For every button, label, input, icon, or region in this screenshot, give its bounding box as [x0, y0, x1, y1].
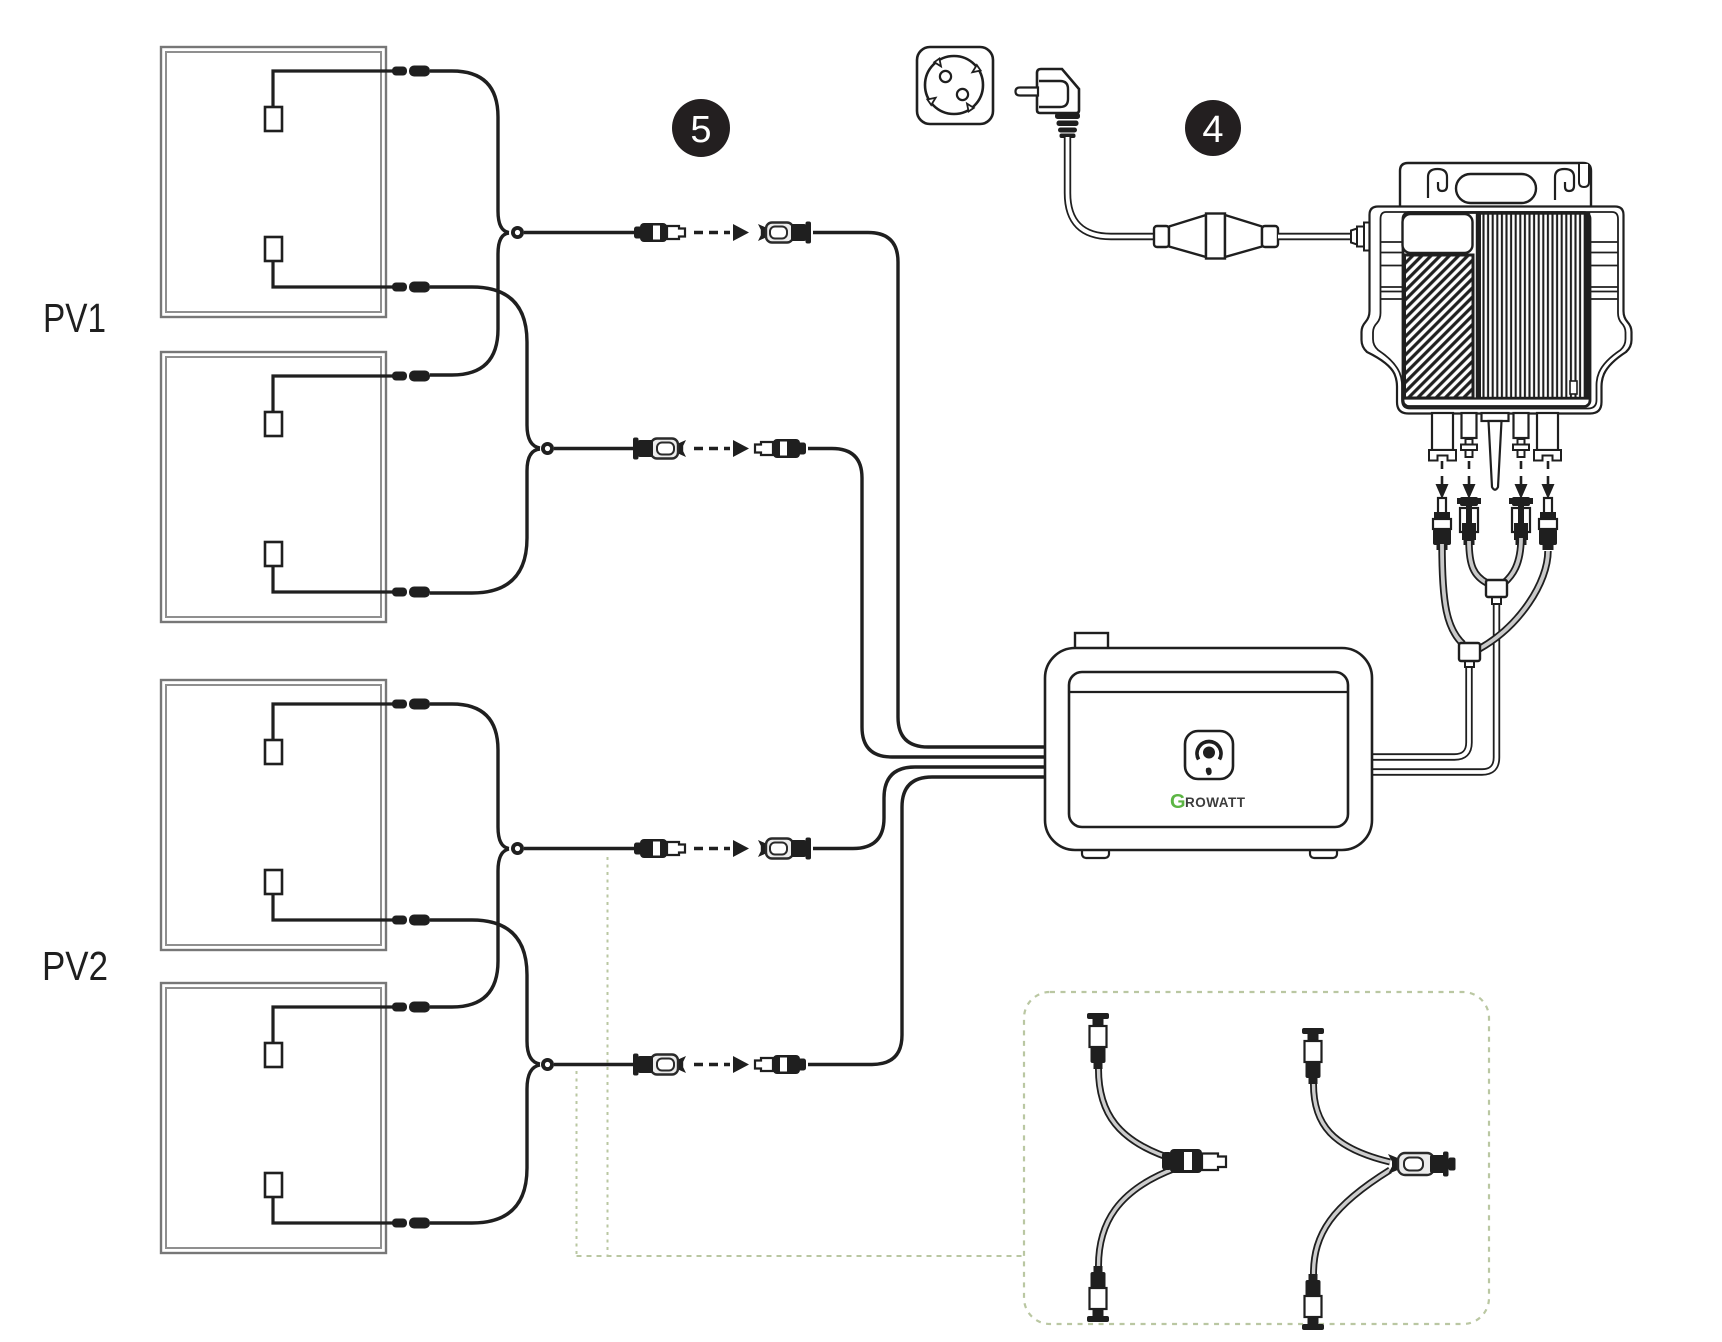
- side rib lines left: [1381, 242, 1618, 299]
- bracket hook slot 2: [1555, 169, 1574, 200]
- monitor logo icon: [1185, 731, 1233, 779]
- MC4 male plug row 2: [755, 439, 806, 458]
- DC stub 4: [1537, 413, 1558, 450]
- DC stub 3: [1514, 413, 1529, 438]
- solar panel PV2-B: [161, 983, 430, 1253]
- svg-text:PV2: PV2: [42, 943, 108, 989]
- mate arrow row 2: [694, 440, 749, 457]
- svg-text:5: 5: [690, 109, 711, 151]
- DC connector plug 2: [1457, 497, 1481, 545]
- drop arrow 2: [1468, 461, 1471, 485]
- trunk cable J1 to box: [1373, 604, 1497, 772]
- MC4 female socket row 4: [633, 1054, 686, 1076]
- svg-text:PV1: PV1: [43, 295, 106, 341]
- Y-cable B top connector: [1302, 1028, 1324, 1084]
- wire PV2-B plus to node N3: [430, 849, 509, 1007]
- DC stub 2: [1462, 413, 1477, 438]
- solar panel PV1-A: [161, 47, 430, 317]
- AC whip: [1482, 413, 1509, 421]
- trunk cable J2 to box: [1373, 667, 1469, 757]
- monitor box inner panel: [1069, 672, 1348, 827]
- wire node N4 to connector row 4: [554, 1063, 634, 1066]
- inner module frame: [1403, 213, 1590, 407]
- wire row2 to box input 2: [808, 449, 1069, 758]
- Y-cable A top connector: [1087, 1013, 1109, 1069]
- cable plug4 to junction J2: [1479, 551, 1548, 649]
- guide line horizontal: [577, 1255, 1025, 1257]
- DC connector plug 3: [1509, 497, 1533, 545]
- AC cord plug to inline connector: [1068, 137, 1156, 237]
- svg-text:G: G: [1170, 791, 1186, 813]
- svg-text:ROWATT: ROWATT: [1185, 795, 1246, 810]
- cable plug3 to junction J1: [1504, 538, 1521, 583]
- inverter AC input stub: [1351, 229, 1357, 245]
- inner case lip: [1373, 212, 1626, 409]
- wire PV1-B minus to node N2: [430, 449, 540, 593]
- cooling fins: [1477, 214, 1589, 399]
- node N4: [541, 1058, 554, 1071]
- bracket slot: [1456, 174, 1536, 203]
- wire PV1-B plus to node N1: [430, 233, 509, 375]
- wire node N3 to connector row 3: [524, 847, 634, 850]
- wire PV1-A minus to node N2: [430, 287, 540, 448]
- micro-inverter U1: [1362, 163, 1632, 490]
- MC4 male plug row 3: [634, 839, 685, 858]
- monitor box top tab: [1075, 633, 1108, 649]
- DC connector plug 4: [1539, 498, 1557, 550]
- Y-cable A bottom connector: [1087, 1266, 1109, 1322]
- MC4 female socket row 3: [758, 838, 811, 860]
- serial mark: [1570, 381, 1577, 394]
- wire PV2-A plus to node N3: [430, 704, 509, 849]
- cable plug2 to junction J1: [1469, 541, 1487, 583]
- drop arrow 3: [1520, 461, 1523, 485]
- wire node N1 to connector row 1: [524, 231, 634, 234]
- wire row3 to box input 3: [813, 767, 1069, 849]
- label plate: [1403, 214, 1473, 253]
- monitor box body: [1045, 648, 1372, 850]
- MC4 male plug row 1: [634, 223, 685, 242]
- AC wall socket icon: [917, 47, 993, 124]
- badge 4: [1185, 100, 1241, 156]
- solar panel PV2-A: [161, 680, 430, 950]
- AC plug: [1016, 69, 1081, 138]
- node N2: [541, 442, 554, 455]
- guide line from row3: [607, 857, 609, 1256]
- mate arrow row 3: [694, 840, 749, 857]
- guide line from row4: [576, 1071, 578, 1256]
- inline AC connector barrel: [1154, 214, 1278, 259]
- wire row4 to box input 4: [808, 777, 1069, 1065]
- Y-cable A lower cord: [1099, 1168, 1177, 1266]
- hatched section: [1405, 255, 1474, 398]
- wire node N2 to connector row 2: [554, 447, 634, 450]
- MC4 male plug row 4: [755, 1055, 806, 1074]
- drop arrow 4: [1547, 461, 1550, 485]
- monitor box foot left: [1082, 840, 1109, 858]
- wire PV2-B minus to node N4: [430, 1065, 540, 1223]
- badge 5: [672, 99, 730, 157]
- MC4 female socket row 2: [633, 438, 686, 460]
- mounting bracket: [1400, 163, 1591, 208]
- svg-text:4: 4: [1202, 109, 1223, 151]
- wire PV2-A minus to node N4: [430, 920, 540, 1064]
- bracket hook slot 1: [1428, 169, 1447, 198]
- DC stub 1: [1432, 413, 1453, 450]
- monitor box foot right: [1310, 840, 1337, 858]
- mate arrow row 4: [694, 1056, 749, 1073]
- Y-cable B upper cord: [1314, 1084, 1391, 1162]
- mate arrow row 1: [694, 224, 749, 241]
- inverter body: [1362, 207, 1632, 414]
- Y-cable A output plug: [1162, 1149, 1226, 1173]
- Y-cable A upper cord: [1099, 1069, 1177, 1160]
- node N3: [511, 842, 524, 855]
- junction J1: [1492, 596, 1501, 604]
- side rib lines right: [1590, 241, 1618, 243]
- Y-cable B lower cord: [1314, 1170, 1391, 1274]
- junction J2: [1465, 660, 1474, 667]
- plug strain relief: [1055, 113, 1080, 119]
- accessory dashed box: [1024, 992, 1489, 1324]
- AC cord inline connector to inverter: [1278, 233, 1352, 240]
- Y-cable B bottom connector: [1302, 1274, 1324, 1330]
- node N1: [511, 226, 524, 239]
- Y-cable B output socket: [1388, 1152, 1456, 1177]
- cable plug1 to junction J2: [1442, 544, 1463, 644]
- MC4 female socket row 1: [758, 222, 811, 244]
- solar panel PV1-B: [161, 352, 430, 622]
- DC connector plug 1: [1433, 498, 1451, 550]
- wire row1 to box input 1: [813, 233, 1069, 748]
- wire PV1-A plus to node N1: [430, 71, 509, 233]
- plug pin: [1016, 88, 1039, 96]
- drop arrow 1: [1441, 461, 1444, 485]
